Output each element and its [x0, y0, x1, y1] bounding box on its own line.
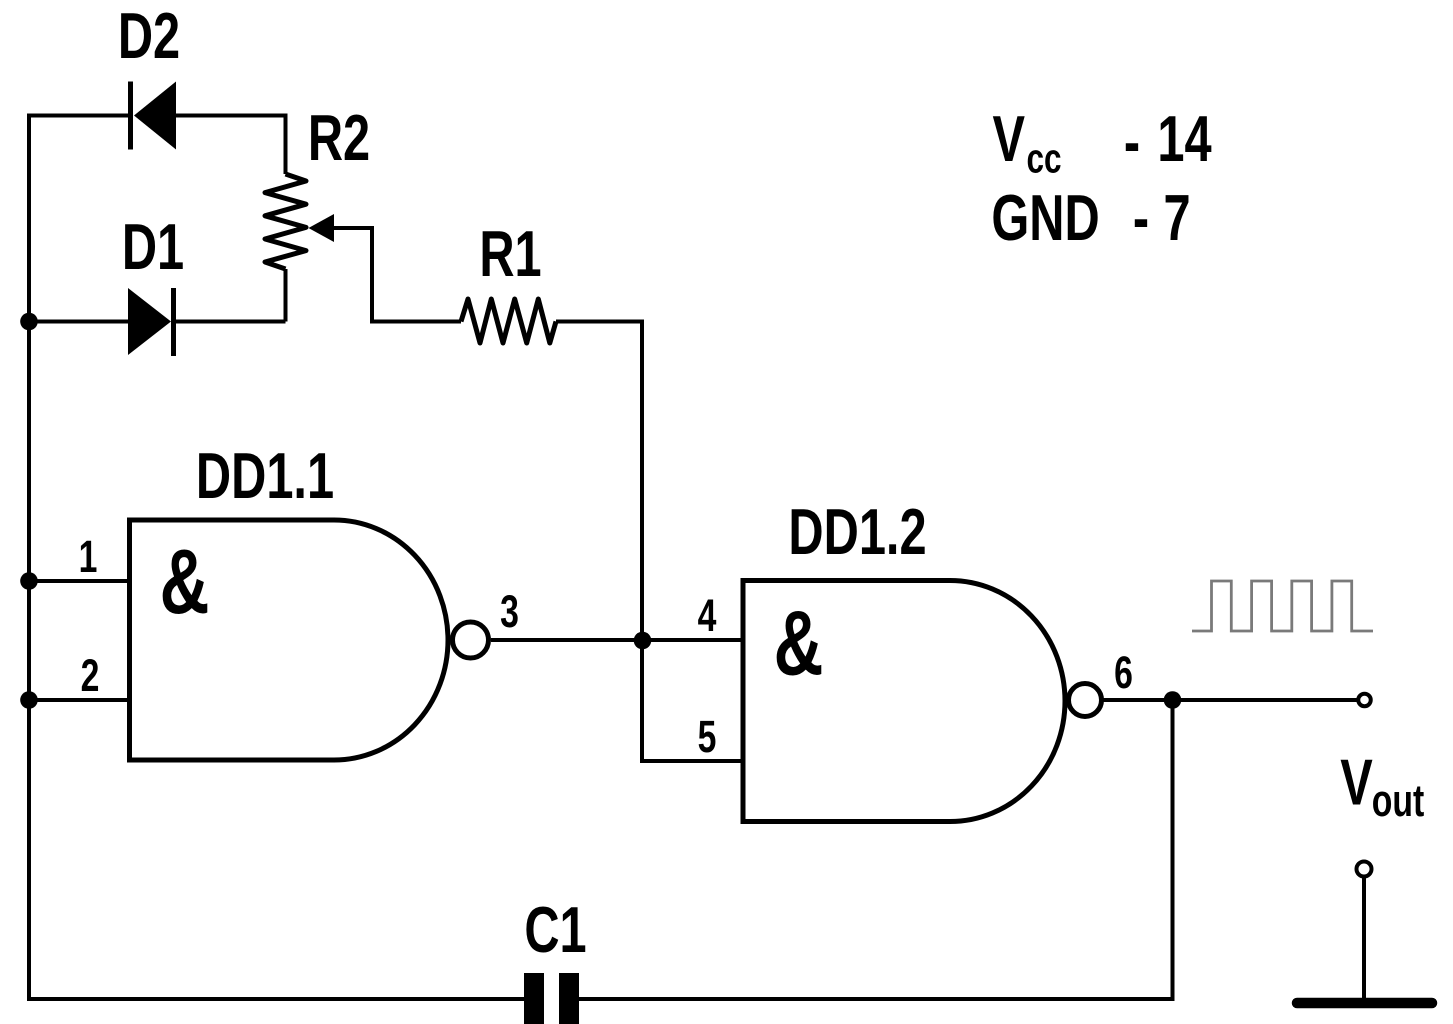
Vout terminal circle: [1357, 862, 1372, 877]
DD1.1 output bubble: [453, 622, 489, 658]
svg-text:3: 3: [500, 587, 519, 637]
resistor R2 (vertical, variable): [265, 174, 306, 269]
svg-text:D1: D1: [122, 211, 184, 283]
output node junction dot: [1164, 691, 1182, 709]
svg-text:-: -: [1133, 182, 1149, 254]
capacitor C1: [524, 973, 579, 1024]
svg-text:-: -: [1124, 106, 1140, 178]
svg-text:4: 4: [698, 591, 717, 641]
svg-text:6: 6: [1114, 648, 1133, 698]
R2 wiper arrow: [309, 214, 335, 242]
node junction dot (left bus / pin 2): [20, 691, 38, 709]
svg-text:5: 5: [698, 712, 717, 762]
NAND gate DD1.2: [743, 581, 1065, 822]
svg-text:V: V: [993, 103, 1026, 175]
wire node A to pin 5: [642, 640, 743, 761]
wire R1 right lead down to node A: [556, 322, 642, 641]
node junction dot (left bus / pin 1): [20, 572, 38, 590]
node A junction dot (pin3/R1/pin4/pin5): [634, 632, 652, 650]
svg-text:2: 2: [81, 651, 100, 701]
resistor R1 (horizontal): [461, 299, 556, 343]
ground bar: [1297, 998, 1432, 1009]
svg-text:DD1.2: DD1.2: [788, 496, 926, 568]
svg-text:7: 7: [1163, 182, 1190, 254]
svg-text:D2: D2: [118, 0, 180, 72]
diode D1: [128, 288, 176, 356]
DD1.2 output bubble: [1069, 684, 1102, 717]
wire DD1.2 output pin 6: [1101, 698, 1359, 702]
svg-text:&: &: [774, 592, 824, 695]
svg-text:R2: R2: [308, 102, 370, 174]
wire node A to pin 4: [642, 638, 743, 642]
wire Vout terminal to ground: [1362, 877, 1366, 1001]
output open terminal: [1358, 694, 1371, 707]
svg-text:&: &: [160, 530, 210, 633]
wire DD1.1 output pin 3 to node A: [491, 638, 642, 642]
wire R2 bottom lead: [284, 269, 288, 322]
square wave symbol: [1192, 581, 1373, 631]
wire pin 2: [29, 698, 129, 702]
wire left vertical bus + bottom left: [29, 116, 524, 1000]
svg-text:R1: R1: [479, 218, 541, 290]
NAND gate DD1.1: [130, 520, 449, 760]
node junction dot (left bus / D1): [20, 313, 38, 331]
diode D2: [128, 82, 176, 150]
svg-text:out: out: [1372, 776, 1424, 826]
wire top row right (D2 cathode to R2 top): [174, 116, 286, 175]
svg-text:cc: cc: [1026, 134, 1061, 182]
svg-text:1: 1: [79, 532, 98, 582]
wire R2 wiper to R1: [334, 228, 461, 322]
wire output node down + bottom right: [579, 700, 1173, 999]
svg-text:14: 14: [1157, 103, 1211, 175]
wire D1 row right: [174, 320, 286, 324]
svg-text:C1: C1: [524, 894, 586, 966]
svg-text:V: V: [1340, 747, 1373, 819]
wire D1 row left: [29, 320, 130, 324]
wire pin 1: [29, 579, 129, 583]
svg-text:DD1.1: DD1.1: [196, 440, 334, 512]
svg-text:GND: GND: [991, 182, 1099, 254]
